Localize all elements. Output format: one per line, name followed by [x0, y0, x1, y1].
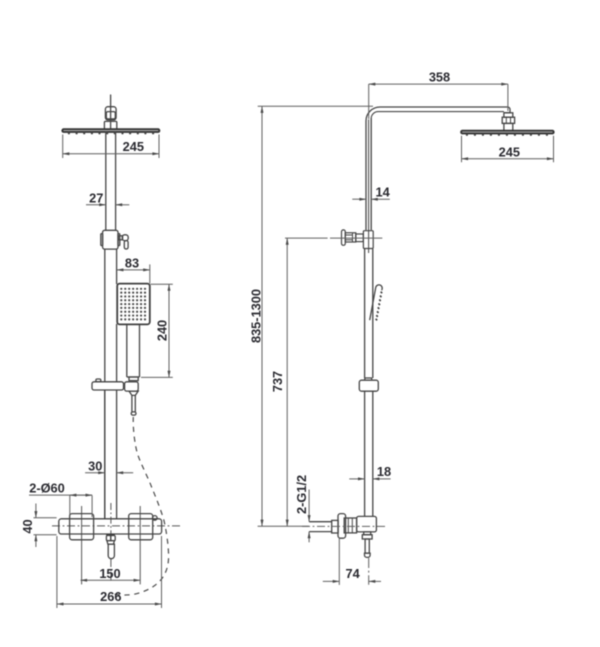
svg-text:30: 30: [88, 459, 102, 474]
svg-text:74: 74: [345, 566, 360, 581]
svg-text:245: 245: [123, 139, 144, 154]
svg-text:245: 245: [499, 144, 520, 159]
svg-text:40: 40: [20, 519, 35, 533]
svg-text:14: 14: [375, 184, 390, 199]
svg-text:835-1300: 835-1300: [249, 289, 264, 343]
svg-text:83: 83: [125, 256, 139, 271]
svg-text:2-G1/2: 2-G1/2: [294, 475, 309, 514]
svg-text:27: 27: [89, 190, 103, 205]
svg-text:240: 240: [155, 320, 170, 341]
svg-text:737: 737: [270, 371, 285, 392]
svg-text:266: 266: [100, 589, 121, 604]
svg-text:18: 18: [377, 464, 391, 479]
svg-text:2-Ø60: 2-Ø60: [29, 481, 65, 496]
svg-text:150: 150: [99, 566, 120, 581]
svg-text:358: 358: [429, 70, 450, 85]
